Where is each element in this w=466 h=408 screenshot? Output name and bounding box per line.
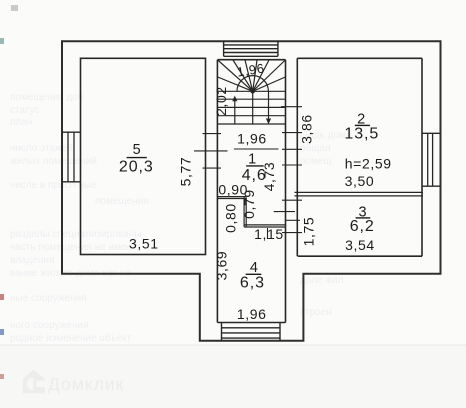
room 3 bottom inner <box>298 255 422 257</box>
svg-text:числе в присп-ные: числе в присп-ные <box>10 180 97 191</box>
svg-text:20,3: 20,3 <box>119 159 154 176</box>
top exterior steps <box>224 41 278 56</box>
room 2 top inner <box>297 57 422 59</box>
svg-text:владения: владения <box>10 255 54 266</box>
niche top double <box>217 196 246 198</box>
svg-text:помещ: помещ <box>300 156 332 167</box>
outer wall outline <box>62 41 441 341</box>
svg-text:3,54: 3,54 <box>345 237 375 253</box>
dim line 1,96 room1 <box>234 148 279 150</box>
niche bottom double <box>244 224 285 226</box>
svg-text:жилых помещений: жилых помещений <box>10 156 97 167</box>
svg-text:2,02: 2,02 <box>213 86 229 116</box>
stair walk line left + up arrow <box>234 101 236 124</box>
window W2 right wall <box>422 133 441 186</box>
svg-text:5: 5 <box>133 142 141 158</box>
edge scan artifacts <box>0 38 4 44</box>
wall right-rooms left <box>296 58 298 256</box>
svg-text:0,80: 0,80 <box>222 203 238 233</box>
svg-text:1,96: 1,96 <box>237 306 267 322</box>
svg-text:1,15: 1,15 <box>254 226 284 242</box>
svg-text:число этажей: число этажей <box>10 143 73 154</box>
svg-text:1,75: 1,75 <box>301 217 317 247</box>
svg-text:3,51: 3,51 <box>129 236 159 252</box>
svg-text:часть помещения не имеет: часть помещения не имеет <box>10 242 137 253</box>
svg-text:0,79: 0,79 <box>241 189 257 219</box>
partition room2/room3 double line <box>295 191 424 193</box>
room 2/3 right inner wall <box>421 58 423 256</box>
svg-text:6,2: 6,2 <box>350 218 375 235</box>
stair center dot <box>250 89 255 94</box>
niche right double <box>243 197 245 227</box>
svg-text:разделы специализированы: разделы специализированы <box>10 229 141 240</box>
svg-text:доле жил: доле жил <box>300 275 344 286</box>
stair box top <box>217 59 285 61</box>
svg-text:Домклик: Домклик <box>48 374 124 394</box>
stair walk line right + down arrow <box>268 91 270 119</box>
svg-text:ного сооружения: ного сооружения <box>10 320 88 331</box>
dim tick in 1,15 <box>267 228 269 239</box>
room 4 bottom inner <box>217 322 285 324</box>
room 5 inner rect <box>81 58 206 254</box>
svg-text:родное изменение объект: родное изменение объект <box>10 332 132 344</box>
svg-text:3,69: 3,69 <box>214 251 230 281</box>
svg-text:13,5: 13,5 <box>344 125 379 142</box>
svg-text:помещения доч: помещения доч <box>10 92 83 103</box>
svg-text:план: план <box>10 117 32 128</box>
svg-text:1,96: 1,96 <box>237 130 267 146</box>
svg-text:помещения: помещения <box>95 196 149 207</box>
bleed-through ghost text <box>10 92 352 344</box>
svg-text:5,77: 5,77 <box>178 157 194 187</box>
svg-text:ные сооружения: ные сооружения <box>10 293 87 304</box>
svg-text:4,73: 4,73 <box>261 162 277 192</box>
window W1 left wall <box>62 132 81 182</box>
stair straight treads <box>217 91 285 124</box>
svg-text:статус: статус <box>10 105 39 116</box>
bottom porch steps <box>222 323 281 341</box>
svg-text:6,3: 6,3 <box>240 275 265 292</box>
wall stair-hall right <box>285 60 287 323</box>
svg-text:h=2,59: h=2,59 <box>345 156 392 172</box>
svg-text:3,86: 3,86 <box>299 114 315 144</box>
wall stair-hall left <box>216 60 218 323</box>
dimension ticks right wall <box>274 107 302 233</box>
dimension ticks left wall <box>194 134 228 169</box>
svg-text:3,50: 3,50 <box>345 173 375 189</box>
watermark domclick icon <box>23 370 45 394</box>
svg-text:строен: строен <box>300 307 332 318</box>
staircase fan <box>218 60 286 91</box>
